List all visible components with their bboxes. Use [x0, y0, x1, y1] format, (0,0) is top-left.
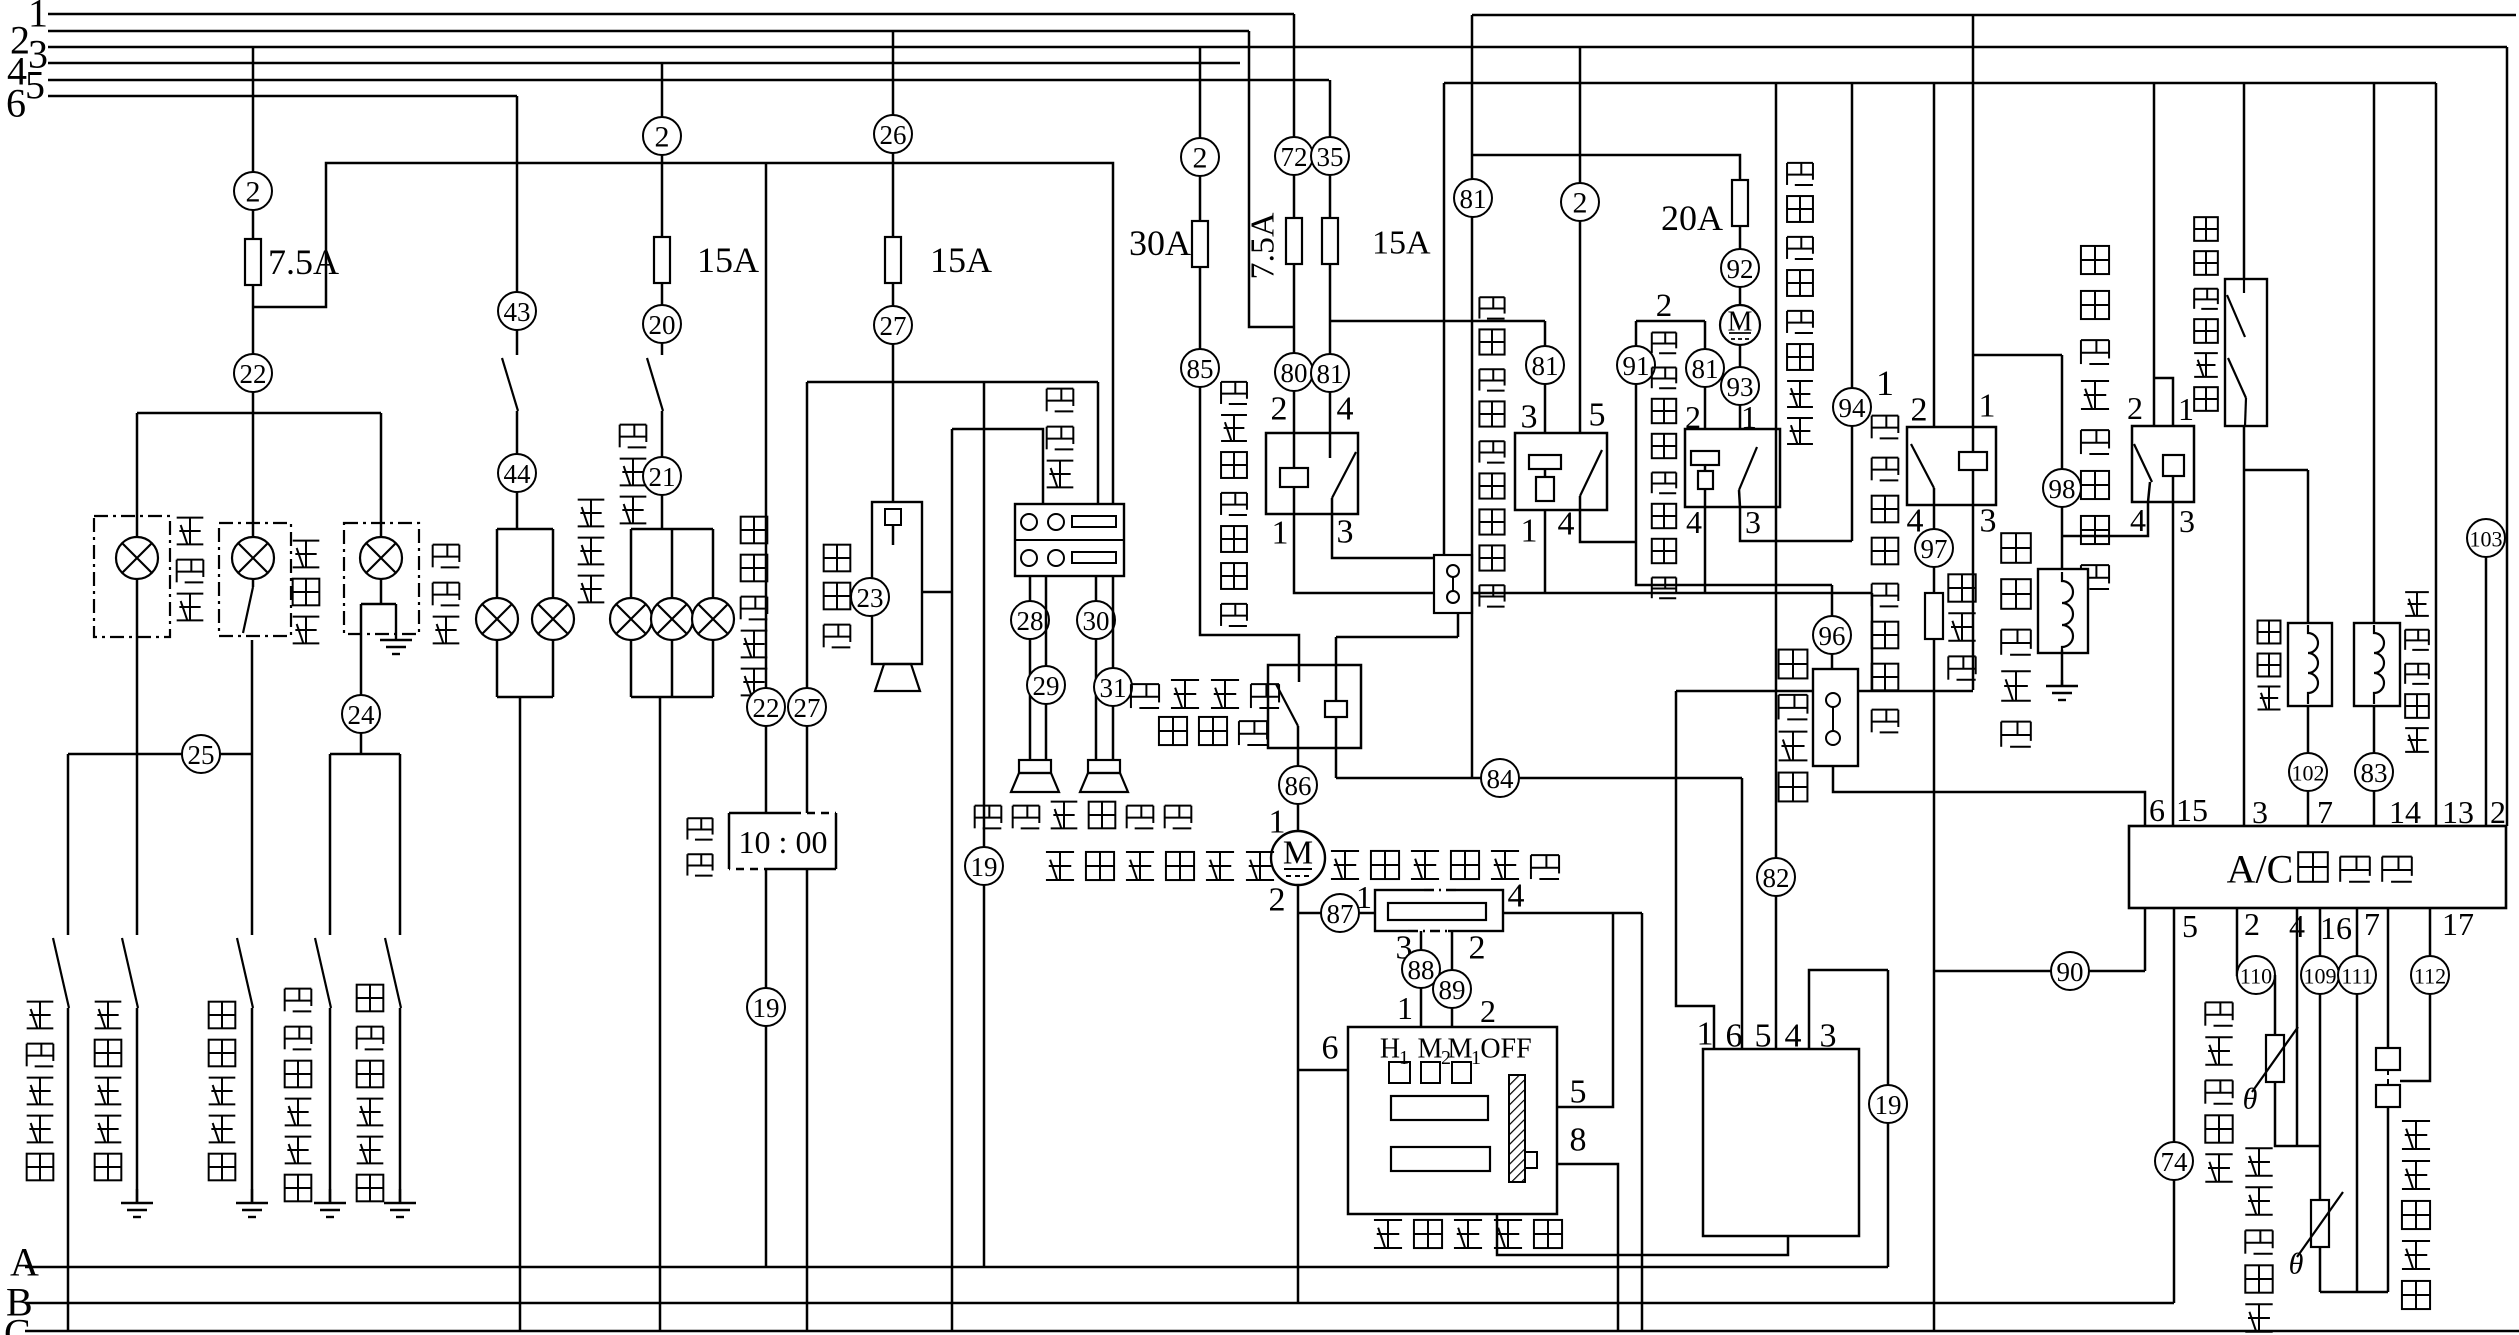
- svg-text:80: 80: [1281, 358, 1308, 388]
- thermistor RT1 前热敏电阻: [2266, 1035, 2284, 1082]
- node 2 connector on dome feeder: [234, 172, 272, 210]
- wire thermistor bottom rail: [2320, 1291, 2388, 1294]
- wire brake feeder from bus 4: [661, 63, 664, 237]
- fuse F5 7.5A: [1286, 218, 1302, 264]
- lamp 前顶灯 front dome lamp: [360, 537, 402, 579]
- wire bus line 2: [48, 30, 1249, 33]
- wire rear dome lamp drop: [136, 413, 139, 537]
- node 2 connector main fan relay: [1561, 183, 1599, 221]
- solenoid valve 电磁阀 coil box: [2288, 623, 2332, 706]
- wire to node 24: [361, 603, 381, 606]
- resistor R2 鼓风机电阻器 blower resistor box: [1375, 890, 1503, 931]
- svg-text:30: 30: [1083, 606, 1110, 636]
- wire door switch to ground: [136, 1008, 139, 1203]
- svg-text:6: 6: [1322, 1030, 1339, 1067]
- wire blower motor return column: [1297, 885, 1300, 1303]
- wire step lamp to pull-door switch: [251, 640, 254, 935]
- wire control box pin 6 feed: [1741, 778, 1744, 1049]
- label 高压开关 high pressure switch: [1779, 650, 1808, 802]
- ground under pull door switch: [236, 1189, 268, 1217]
- svg-text:84: 84: [1487, 764, 1515, 794]
- node 24 connector: [342, 695, 380, 733]
- switch 高压开关 high pressure switch box: [1813, 669, 1858, 766]
- wire brake lamps to bus C: [659, 697, 662, 1331]
- wire high pressure switch rail to amp pin 6: [1833, 766, 2145, 826]
- motor M1 鼓风机电动机 blower motor: [1271, 831, 1325, 885]
- wire radio to speaker via node 31: [1112, 576, 1115, 760]
- wire 右前门灯开关 column: [399, 754, 402, 935]
- wire bus line B: [25, 1302, 2174, 1305]
- svg-text:25: 25: [188, 740, 215, 770]
- relay K6 contact blade: [2134, 444, 2152, 482]
- wire K5 pin3 to rail y690: [1972, 505, 1975, 690]
- wire K4 pin3 to node 94 column: [1740, 507, 1852, 541]
- svg-text:3: 3: [1521, 399, 1538, 436]
- relay K4 coil: [1691, 451, 1719, 465]
- svg-text:5: 5: [1589, 397, 1606, 434]
- wire amp pin 17 via node 112 to temp switch: [2400, 908, 2430, 1081]
- svg-text:87: 87: [1327, 899, 1354, 929]
- front dome lamp enclosure box: [344, 523, 419, 634]
- relay K1 空调切断继电器 box: [1266, 433, 1358, 514]
- svg-text:6: 6: [2149, 792, 2165, 828]
- wire to node 44: [516, 411, 519, 529]
- ground under clutch coil: [2046, 680, 2078, 700]
- label 后门灯开关 rear door lamp switch: [95, 1002, 122, 1181]
- node 81 connector: [1311, 354, 1349, 392]
- wire lighter to radio link stub: [922, 591, 952, 594]
- wire rear temp switch to bottom rail: [2387, 1107, 2390, 1292]
- wire branch rail y163: [253, 163, 1113, 504]
- wire 后顶灯开关 to bus C: [67, 1008, 70, 1331]
- svg-text:6: 6: [1726, 1018, 1743, 1055]
- step lamp enclosure box: [219, 523, 291, 636]
- svg-text:98: 98: [2049, 474, 2076, 504]
- switch 拉门灯开关 blade: [237, 938, 253, 1008]
- wire switch rail y754 right: [330, 753, 400, 756]
- wire radio to speaker via node 29: [1045, 576, 1048, 760]
- node 44 connector: [498, 454, 536, 492]
- clock 时钟 box: [729, 813, 836, 869]
- svg-text:16: 16: [2320, 910, 2352, 946]
- label 前加热器继电器 preheater relay line1: [1131, 680, 1279, 708]
- node 89 connector: [1433, 970, 1471, 1008]
- svg-text:2: 2: [2490, 794, 2506, 830]
- wire motor to resistor via node 87: [1298, 912, 1375, 915]
- wire fuse to lighter: [892, 283, 895, 502]
- label 1号冷却风扇继电器 No1 cooling fan relay: [0, 0, 1, 1]
- wire front dome lamp bottom stub: [380, 579, 383, 604]
- svg-text:1: 1: [28, 0, 48, 36]
- ground under right front door switch: [384, 1189, 416, 1217]
- node 88 connector: [1402, 950, 1440, 988]
- label 左前门灯开关 left front door lamp switch: [285, 989, 312, 1202]
- label 高位制动灯 high mount brake lamp: [741, 517, 768, 696]
- wire line2 jog join: [1249, 31, 1294, 327]
- svg-text:1: 1: [1521, 513, 1538, 550]
- cigarette lighter knob: [875, 664, 920, 691]
- thermistor RT2 后热敏电阻: [2311, 1200, 2329, 1247]
- node 80 connector: [1275, 353, 1313, 391]
- wire 左前门灯开关 column: [329, 754, 332, 935]
- svg-text:27: 27: [794, 693, 821, 723]
- svg-text:M: M: [1448, 1034, 1473, 1065]
- label 电阻器 resistor: [1948, 574, 1975, 679]
- wire idle-up valve column to amp pin 14: [2373, 83, 2376, 826]
- resistor R1 电阻器: [1925, 593, 1943, 639]
- wire top feeder rail y15: [1472, 14, 2516, 17]
- svg-text:2: 2: [1480, 993, 1496, 1029]
- fuse F1 7.5A: [245, 239, 261, 285]
- wire reversing lamp feeder from bus 6: [516, 96, 519, 355]
- wire K5 coil feed from y15 rail: [1972, 15, 1975, 452]
- label 拉门灯开关 pull door lamp switch: [209, 1002, 236, 1181]
- svg-text:10 : 00: 10 : 00: [739, 824, 828, 860]
- wire line1 drop to fuse: [1293, 14, 1296, 218]
- node 23 connector on lighter: [851, 578, 889, 616]
- wire K6 pin 4 to clutch coil node: [2062, 502, 2148, 536]
- wire radio to speaker via node 30: [1095, 576, 1098, 760]
- motor M2 冷凝器风扇电动机 condenser fan motor: [1720, 305, 1760, 345]
- svg-text:92: 92: [1727, 254, 1754, 284]
- wire y83 rail drop to aux switch: [1443, 83, 1446, 555]
- wire 后顶灯开关 column: [67, 754, 70, 935]
- svg-text:8: 8: [1570, 1122, 1587, 1159]
- label 鼓风机电动机 blower motor: [1046, 852, 1274, 880]
- switch 后调温开关 rear temperature switch: [2376, 1048, 2400, 1070]
- lamp 制动灯 brake lamp 2: [651, 598, 693, 640]
- svg-text:3: 3: [1980, 503, 1997, 540]
- rear dome lamp enclosure box: [94, 516, 170, 637]
- ground in front dome lamp box: [380, 604, 412, 654]
- svg-text:1: 1: [1697, 1016, 1714, 1053]
- lamp 倒车灯 reversing lamp left: [476, 598, 518, 640]
- svg-text:111: 111: [2341, 964, 2372, 989]
- svg-text:θ: θ: [2243, 1083, 2258, 1116]
- svg-text:2: 2: [1911, 392, 1928, 429]
- node 103 connector: [2467, 519, 2505, 557]
- svg-text:5: 5: [2182, 908, 2198, 944]
- node 22 connector on dome feeder: [234, 354, 272, 392]
- wire bus line A: [25, 1266, 1888, 1269]
- wire lighter element stub: [892, 525, 895, 545]
- node 92 connector: [1721, 249, 1759, 287]
- svg-text:2: 2: [2244, 906, 2260, 942]
- svg-text:13: 13: [2442, 794, 2474, 830]
- svg-text:1: 1: [1399, 1047, 1409, 1069]
- wire radio feed rail y382: [807, 381, 1098, 384]
- wire fuse to fan motor and relay pin 1: [1739, 226, 1742, 429]
- wire dual pressure switch column to amp pin 3: [2243, 83, 2246, 826]
- svg-text:OFF: OFF: [1480, 1034, 1531, 1065]
- svg-text:2: 2: [1685, 399, 1701, 435]
- wire brake lamp frame: [631, 528, 713, 531]
- label 鼓风机开关 blower switch: [1374, 1220, 1562, 1248]
- speaker 收音机扬声器 right: [1088, 760, 1120, 773]
- wire resistor pin 4 rail: [1503, 912, 1642, 915]
- switch 后顶灯开关 blade: [53, 938, 69, 1008]
- label 电磁阀 solenoid valve: [2258, 621, 2281, 710]
- svg-text:15: 15: [2176, 792, 2208, 828]
- node 82 connector: [1757, 858, 1795, 896]
- node 2 connector on brake feeder: [643, 117, 681, 155]
- label 冷凝器风扇电动机 condenser fan motor: [1787, 163, 1813, 444]
- label 后顶灯开关 rear dome lamp switch: [27, 1002, 54, 1181]
- switch 后门灯开关 blade: [122, 938, 138, 1008]
- svg-text:20: 20: [649, 310, 676, 340]
- cigarette lighter heating element: [885, 509, 901, 525]
- svg-text:85: 85: [1187, 354, 1214, 384]
- pressure switch aux box: [1434, 555, 1472, 613]
- fuse F2 15A: [654, 237, 670, 283]
- svg-text:7: 7: [2317, 794, 2333, 830]
- svg-text:2: 2: [1271, 391, 1288, 428]
- svg-text:26: 26: [880, 120, 907, 150]
- wire to No2 fan relay coil pin 2: [1704, 321, 1707, 429]
- node 102 connector: [2289, 753, 2327, 791]
- svg-text:81: 81: [1532, 351, 1559, 381]
- wire front thermistor branch: [2275, 975, 2320, 1146]
- wire bus line 3: [48, 46, 2507, 49]
- wire bus line 6: [48, 95, 517, 98]
- wire blower switch pin 8 to bus C: [1557, 1164, 1618, 1331]
- svg-text:19: 19: [1875, 1090, 1902, 1120]
- wire K3 pin4 jog: [1580, 510, 1636, 542]
- node 74 connector: [2155, 1142, 2193, 1180]
- svg-text:88: 88: [1408, 955, 1435, 985]
- wire to lamp ground: [381, 603, 396, 606]
- switch S1 鼓风机开关 blower switch box: [1348, 1027, 1557, 1214]
- node 43 connector: [498, 292, 536, 330]
- wire rail y155 to 20A fuse: [1472, 155, 1740, 180]
- wire amp pin 7 to rear temp switch: [2387, 908, 2390, 1048]
- label 点烟器 cigarette lighter: [824, 545, 851, 648]
- node 19 connector right: [1869, 1085, 1907, 1123]
- svg-text:81: 81: [1692, 354, 1719, 384]
- wire pin 3 jog to aux switch: [1332, 498, 1434, 558]
- label 后调温开关 rear temp switch: [2402, 1121, 2430, 1309]
- svg-text:20A: 20A: [1661, 198, 1723, 238]
- svg-text:2: 2: [655, 121, 670, 154]
- lamp 倒车灯 reversing lamp right: [532, 598, 574, 640]
- wire front dome lamp drop: [380, 413, 383, 537]
- AC control panel box: [1703, 1049, 1859, 1236]
- svg-text:4: 4: [2130, 502, 2146, 538]
- svg-text:2: 2: [1469, 930, 1486, 967]
- wire amp pin 16 via node 109 to rear thermistor: [2319, 908, 2322, 1292]
- wire pin4 rail down to bus C: [1641, 913, 1644, 1331]
- relay K4 contact blade: [1739, 447, 1757, 490]
- wire lamp branch rail y413: [137, 412, 381, 415]
- node 87 connector: [1321, 894, 1359, 932]
- svg-text:81: 81: [1317, 359, 1344, 389]
- svg-text:74: 74: [2161, 1147, 2189, 1177]
- wire top feeder rail y83: [1444, 82, 2436, 85]
- wire K6 pin 3 to amp pin 15: [2172, 502, 2175, 826]
- svg-text:1: 1: [1397, 990, 1413, 1026]
- svg-text:C: C: [4, 1311, 31, 1335]
- wire control box pin 1 feed: [1676, 691, 1714, 1049]
- svg-text:7.5A: 7.5A: [268, 242, 339, 282]
- node 27 connector: [874, 306, 912, 344]
- svg-text:97: 97: [1921, 534, 1948, 564]
- wire x1636 column to node 96: [1636, 321, 1832, 585]
- label 收音机 radio: [1047, 389, 1074, 488]
- ground under left front door switch: [314, 1189, 346, 1217]
- node 84 connector: [1481, 759, 1519, 797]
- wire node 19 column to bus A: [983, 382, 986, 1267]
- wire blower switch pin 5 to resistor rail: [1557, 913, 1613, 1107]
- svg-text:5: 5: [1755, 1018, 1772, 1055]
- label 后热敏电阻 rear thermistor: [2245, 1148, 2272, 1331]
- svg-text:96: 96: [1819, 621, 1846, 651]
- node 112 connector: [2411, 956, 2449, 994]
- switch step lamp door blade: [243, 587, 253, 633]
- wire clock feed via node 27: [806, 382, 809, 813]
- node 90 connector: [2051, 952, 2089, 990]
- label 2号冷却风扇继电器 No2 cooling fan relay: [0, 0, 1, 1]
- svg-text:94: 94: [1839, 393, 1867, 423]
- svg-text:21: 21: [649, 462, 676, 492]
- node 19 connector below clock: [747, 988, 785, 1026]
- solenoid 电磁离合器 clutch coil: [2038, 569, 2088, 653]
- svg-text:2: 2: [246, 176, 261, 209]
- relay K4 2号冷却风扇继电器 box: [1685, 429, 1780, 507]
- relay K6 电磁离合器继电器 box: [2132, 426, 2194, 502]
- node 20 connector: [643, 305, 681, 343]
- wire K5 pin4 resistor column: [1933, 505, 1936, 1331]
- svg-text:24: 24: [348, 700, 376, 730]
- svg-text:93: 93: [1727, 372, 1754, 402]
- A/C amplifier 放大器 box: [2129, 826, 2506, 908]
- node 86 connector: [1279, 766, 1317, 804]
- wire dome lamp feeder x253: [252, 47, 255, 537]
- svg-text:35: 35: [1317, 142, 1344, 172]
- svg-text:23: 23: [857, 583, 884, 613]
- label 踏步灯 step lamp: [293, 541, 320, 644]
- svg-text:A: A: [10, 1240, 39, 1285]
- wire main fan relay contact feed from bus 3: [1579, 47, 1582, 433]
- wire clock feed via node 22: [765, 163, 768, 813]
- node 29 connector: [1027, 666, 1065, 704]
- wire coil return to rail 84: [1335, 717, 1338, 778]
- svg-text:6: 6: [6, 81, 26, 126]
- label 放大器 amplifier text: [2298, 852, 2412, 882]
- node 22 connector at clock: [747, 688, 785, 726]
- svg-text:3: 3: [2179, 503, 2195, 539]
- node 25 connector: [182, 735, 220, 773]
- fuse F6 15A: [1322, 218, 1338, 264]
- svg-text:A/C: A/C: [2227, 847, 2294, 892]
- wire bus line 1: [48, 13, 1294, 16]
- wire control box pin 4 jog to node 19: [1809, 970, 1888, 1049]
- wire node 103 to amp: [2485, 557, 2488, 826]
- node 28 connector: [1011, 601, 1049, 639]
- lamp 踏步灯 step lamp: [232, 537, 274, 579]
- svg-text:27: 27: [880, 311, 907, 341]
- lamp 制动灯 brake lamp 3: [692, 598, 734, 640]
- svg-text:102: 102: [2292, 761, 2325, 786]
- node 81 connector on x1472: [1454, 179, 1492, 217]
- speaker 收音机扬声器 left: [1019, 760, 1051, 773]
- wire contact to pin 86: [1297, 726, 1300, 748]
- svg-text:15A: 15A: [930, 240, 992, 280]
- relay K3 coil: [1529, 455, 1561, 469]
- label 收音机扬声器 radio speakers: [975, 802, 1192, 829]
- node 109 connector: [2301, 956, 2339, 994]
- label 空调切断继电器 AC cut relay: [1221, 382, 1247, 626]
- svg-text:15A: 15A: [1372, 225, 1431, 262]
- node 21 connector: [643, 457, 681, 495]
- node 72 connector: [1275, 137, 1313, 175]
- wire control box pin 5 feed via node 82: [1775, 83, 1778, 1049]
- svg-text:110: 110: [2240, 964, 2272, 989]
- svg-text:29: 29: [1033, 671, 1060, 701]
- wire rail y593 riser down: [1871, 593, 1874, 691]
- wire radio-lighter link column to bus C: [951, 429, 954, 1331]
- wire resistor pin 3 via node 88: [1420, 931, 1423, 1027]
- wire K4 pin4 to ground rail: [1704, 507, 1707, 593]
- wire to node 21: [661, 411, 664, 529]
- label 右前门灯开关 right front door lamp switch: [357, 985, 384, 1202]
- svg-text:86: 86: [1285, 771, 1312, 801]
- svg-text:83: 83: [2361, 758, 2388, 788]
- wire K5 contact feed: [1933, 83, 1936, 427]
- switch 双重压力开关 dual pressure switch box: [2225, 279, 2267, 426]
- node 85 connector: [1181, 349, 1219, 387]
- wire node 24 drop: [360, 604, 363, 754]
- svg-text:91: 91: [1623, 351, 1650, 381]
- relay K5 1号冷却风扇继电器 box: [1907, 427, 1996, 505]
- svg-text:1: 1: [1741, 399, 1757, 435]
- relay K1 coil: [1280, 468, 1308, 487]
- svg-text:2: 2: [1573, 187, 1588, 220]
- lamp 制动灯 brake lamp 1: [610, 598, 652, 640]
- svg-text:43: 43: [504, 297, 531, 327]
- svg-text:1: 1: [1356, 879, 1372, 915]
- wire node 19 column to bus A: [1887, 970, 1890, 1267]
- wire amp pin 7b via node 111: [2356, 908, 2359, 1292]
- node 98 connector: [2043, 469, 2081, 507]
- wire bus line C: [25, 1330, 2519, 1333]
- label 前热敏电阻 front thermistor: [2205, 1002, 2232, 1181]
- svg-text:2: 2: [1269, 882, 1286, 919]
- wire lighter feeder from bus 2: [892, 31, 895, 237]
- solenoid valve 怠速提高阀 idle-up valve box: [2354, 623, 2400, 706]
- switch 左前门灯开关 blade: [315, 938, 331, 1008]
- wire K3 pin1 down to rail y593: [1544, 510, 1547, 593]
- wire node 94 column: [1851, 83, 1854, 541]
- svg-text:89: 89: [1439, 975, 1466, 1005]
- node 19 connector mid: [965, 847, 1003, 885]
- relay K3 冷凝器风扇主继电器 box: [1515, 433, 1607, 510]
- relay K3 contact blade: [1580, 450, 1602, 496]
- wire fuse to AC cut relay contact: [1329, 264, 1332, 458]
- radio 收音机 unit box: [1015, 504, 1124, 576]
- svg-text:4: 4: [1508, 878, 1525, 915]
- svg-text:4: 4: [1686, 504, 1702, 540]
- svg-text:109: 109: [2304, 964, 2337, 989]
- svg-text:15A: 15A: [697, 240, 759, 280]
- cigarette lighter 点烟器 box: [872, 502, 922, 664]
- label 双重压力开关 dual pressure switch: [2194, 217, 2218, 411]
- wire line 3 drop to amp pin 2: [2506, 47, 2509, 826]
- wire aux switch to rail: [1457, 613, 1460, 637]
- wire node 96 to high pressure switch: [1831, 585, 1834, 669]
- wire link jog to radio top-left pin: [952, 429, 1043, 504]
- svg-text:1: 1: [1979, 388, 1996, 425]
- wire clutch relay contact feed from y83 rail: [2153, 83, 2156, 426]
